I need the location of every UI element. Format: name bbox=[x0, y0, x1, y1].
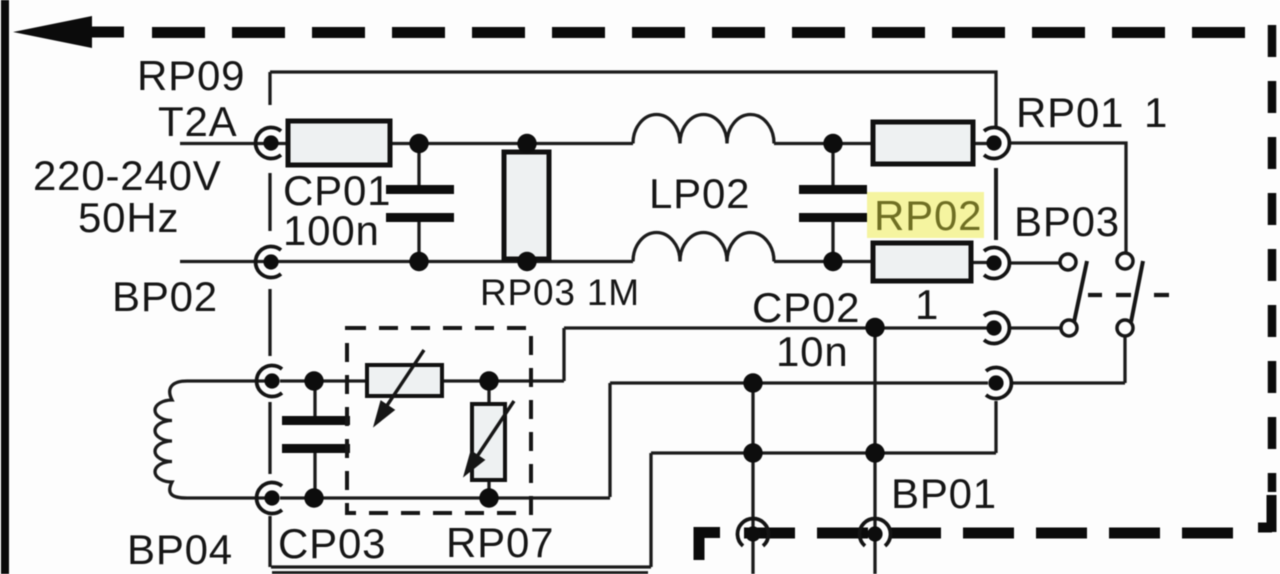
svg-text:T2A: T2A bbox=[158, 98, 237, 145]
svg-text:RP01: RP01 bbox=[1016, 89, 1124, 136]
svg-text:BP02: BP02 bbox=[112, 273, 218, 320]
svg-text:10n: 10n bbox=[776, 328, 848, 375]
svg-text:50Hz: 50Hz bbox=[78, 194, 179, 241]
svg-text:RP03 1M: RP03 1M bbox=[480, 272, 640, 313]
svg-text:RP02: RP02 bbox=[874, 192, 982, 239]
svg-text:BP03: BP03 bbox=[1014, 198, 1120, 245]
svg-text:1: 1 bbox=[915, 281, 939, 328]
svg-text:CP02: CP02 bbox=[752, 284, 860, 331]
svg-text:RP09: RP09 bbox=[137, 52, 245, 99]
svg-text:100n: 100n bbox=[283, 207, 380, 254]
svg-text:LP02: LP02 bbox=[649, 170, 750, 217]
svg-text:RP07: RP07 bbox=[446, 519, 554, 566]
svg-text:BP01: BP01 bbox=[891, 470, 997, 517]
svg-text:220-240V: 220-240V bbox=[33, 152, 222, 199]
svg-text:1: 1 bbox=[1144, 89, 1168, 136]
svg-text:CP03: CP03 bbox=[278, 520, 386, 567]
svg-text:BP04: BP04 bbox=[127, 526, 233, 573]
